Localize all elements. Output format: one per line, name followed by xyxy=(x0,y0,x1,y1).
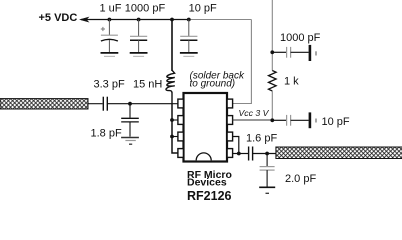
node: rail junction C2 xyxy=(137,18,141,22)
IC U1 pin 3 left xyxy=(178,132,184,141)
capacitor C7 10 pF (right) xyxy=(272,115,308,126)
svg-text:RF2126: RF2126 xyxy=(187,189,232,203)
capacitor C2 1000 pF xyxy=(130,20,147,53)
node: rail junction bus xyxy=(170,18,174,22)
wire: bus stub pin 1 xyxy=(172,103,178,105)
IC U1 pin 6 right xyxy=(227,132,233,141)
svg-text:Devices: Devices xyxy=(187,177,227,189)
wire: rail drop to IC pin 8 (right pin 1) xyxy=(232,20,252,104)
IC U1 pin 4 left xyxy=(178,149,184,158)
wire: trace to C4 xyxy=(88,103,103,105)
svg-text:to ground): to ground) xyxy=(190,79,236,90)
svg-text:1 k: 1 k xyxy=(284,76,299,88)
RF input microstrip trace xyxy=(0,99,88,109)
wire: left pin bus xyxy=(172,104,178,153)
terminal T-bar (C7) xyxy=(309,112,312,128)
IC U1 pin 1 left xyxy=(178,99,184,108)
wire: rail to inductor xyxy=(171,20,173,72)
svg-text:10 pF: 10 pF xyxy=(322,116,350,128)
IC U1 notch xyxy=(196,153,211,160)
IC U1 pin 7 right xyxy=(227,116,233,125)
resistor R1 1 k xyxy=(268,71,276,92)
wire: right rail from top xyxy=(271,0,273,71)
svg-text:1000 pF: 1000 pF xyxy=(125,3,166,15)
RF output microstrip trace xyxy=(276,147,402,159)
svg-text:1 uF: 1 uF xyxy=(100,3,122,15)
node: output junction xyxy=(265,152,269,156)
svg-text:+5 VDC: +5 VDC xyxy=(39,12,78,24)
ground (C3) xyxy=(180,53,198,57)
wire: pin 5 right to C8 xyxy=(232,153,248,155)
IC U1 pin 8 right xyxy=(227,99,233,108)
capacitor C6 1000 pF (right) xyxy=(272,47,308,58)
IC U1 RF2126 body xyxy=(184,93,228,162)
ground (C9) xyxy=(259,187,275,193)
svg-text:10 pF: 10 pF xyxy=(189,3,217,15)
terminal T-bar (C6) xyxy=(309,45,312,61)
svg-text:2.0 pF: 2.0 pF xyxy=(285,173,316,185)
wire: R1 to Vcc node xyxy=(271,91,273,120)
svg-text:1000 pF: 1000 pF xyxy=(280,32,321,44)
wire: C4 to bus xyxy=(107,103,172,105)
wire: inductor to input node xyxy=(171,93,173,104)
+5 VDC supply arrow xyxy=(80,17,88,22)
capacitor C1 1 uF (electrolytic) xyxy=(101,20,118,53)
svg-text:15 nH: 15 nH xyxy=(133,79,162,91)
svg-text:Vcc 3 V: Vcc 3 V xyxy=(239,108,270,118)
svg-text:1.6 pF: 1.6 pF xyxy=(246,133,277,145)
IC U1 pin 2 left xyxy=(178,116,184,125)
wire: C8 to output trace xyxy=(253,153,276,155)
node: rail junction C1 xyxy=(108,18,112,22)
wire: pin 6 right jog down xyxy=(232,137,239,154)
ground (C5) xyxy=(121,138,139,145)
wire: bus stub pin 3 xyxy=(172,136,178,138)
capacitor C5 1.8 pF xyxy=(121,104,139,137)
capacitor C4 3.3 pF xyxy=(103,97,107,111)
node: rail junction C3 xyxy=(187,18,191,22)
terminal tick (C7) xyxy=(315,119,317,123)
wire: rail right (gray) xyxy=(190,19,251,21)
node: 1000 pF junction xyxy=(270,50,274,54)
svg-text:3.3 pF: 3.3 pF xyxy=(94,79,125,91)
node: bus junction pin 2 xyxy=(170,118,174,122)
node: bus junction pin 3 xyxy=(170,135,174,139)
ground (C2) xyxy=(130,53,148,57)
capacitor C9 2.0 pF xyxy=(260,154,275,187)
terminal tick (C6) xyxy=(315,51,317,55)
inductor L1 15 nH xyxy=(166,70,175,93)
wire: pin 7 right to Vcc node xyxy=(232,119,272,121)
wire: +5V rail xyxy=(81,19,190,21)
IC U1 pin 5 right xyxy=(227,149,233,158)
node: pin 5/6 junction xyxy=(237,152,241,156)
capacitor C3 10 pF xyxy=(180,20,197,53)
wire: bus stub pin 2 xyxy=(172,119,178,121)
svg-text:1.8 pF: 1.8 pF xyxy=(91,128,122,140)
node: input junction xyxy=(128,102,132,106)
capacitor C8 1.6 pF xyxy=(249,147,253,161)
ground (C1) xyxy=(101,53,119,57)
node: Vcc junction xyxy=(270,118,274,122)
